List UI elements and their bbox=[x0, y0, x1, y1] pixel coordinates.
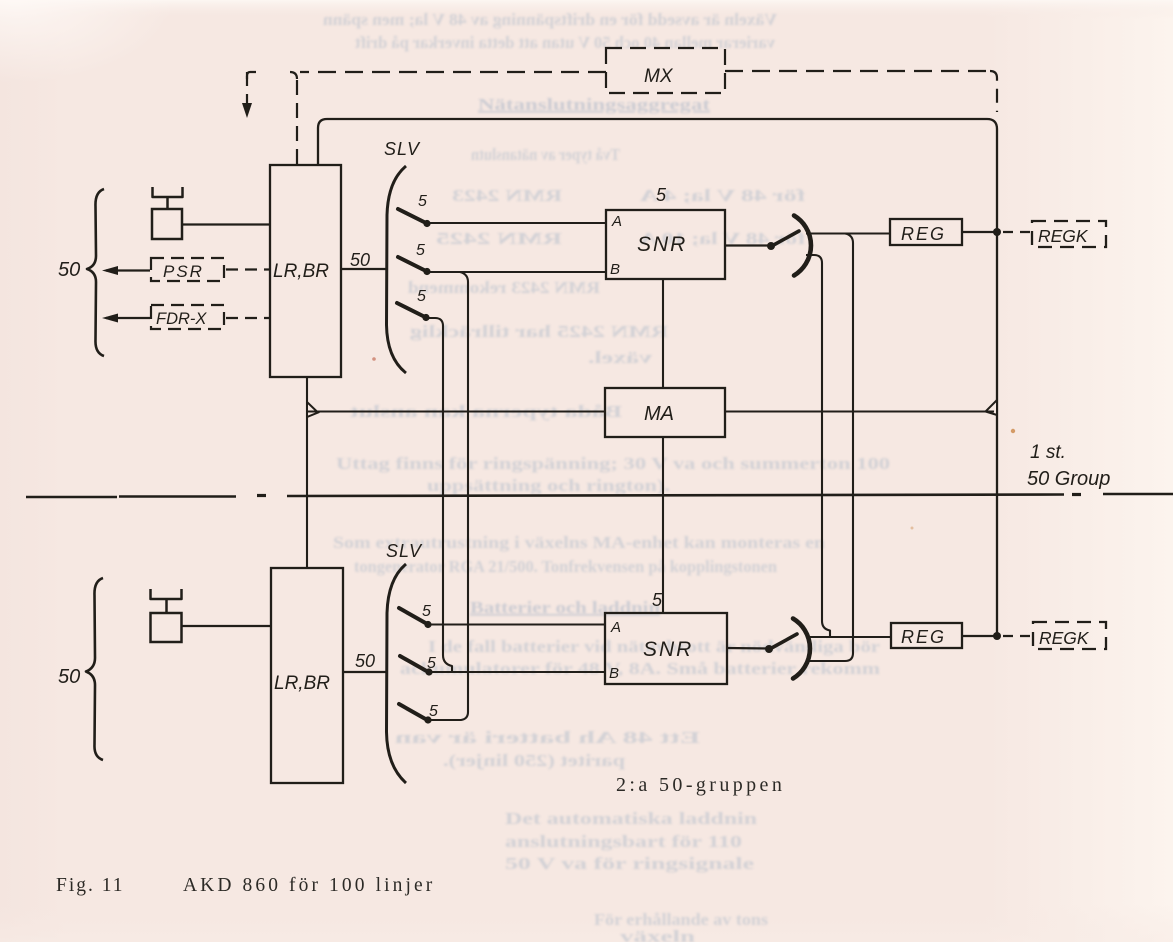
wire dashed PSR to LR,BR bbox=[226, 268, 270, 270]
wire arc top contact to REG upper bbox=[806, 232, 890, 234]
wire dashed bus to REGK lower bbox=[1003, 635, 1031, 637]
svg-text:5: 5 bbox=[416, 242, 425, 259]
wire arc top contact to REG lower bbox=[806, 636, 891, 638]
wire SNR upper output bbox=[725, 244, 772, 246]
svg-text:1 st.: 1 st. bbox=[1030, 442, 1066, 463]
svg-text:SLV: SLV bbox=[386, 541, 423, 561]
svg-text:paritet (250 linjer).: paritet (250 linjer). bbox=[443, 751, 625, 770]
wire tap down from REG line bbox=[807, 234, 853, 662]
box MA bbox=[605, 388, 725, 437]
svg-text:Växeln är avsedd för en drifts: Växeln är avsedd för en driftspänning av… bbox=[323, 10, 777, 29]
svg-text:50 Group: 50 Group bbox=[1027, 468, 1110, 490]
wire SNR lower output bbox=[727, 647, 770, 650]
wire dashed drop to LR,BR bbox=[296, 80, 298, 165]
wire dashed left drop with arrow bbox=[246, 72, 248, 104]
svg-text:RMN 2423 rekommend: RMN 2423 rekommend bbox=[408, 278, 600, 297]
svg-text:REGK: REGK bbox=[1038, 226, 1089, 246]
selector arc lower bbox=[793, 619, 810, 679]
bleed-through mirrored text from reverse side bbox=[323, 10, 890, 942]
brace switches lower bbox=[387, 564, 407, 783]
svg-text:RMN 2425 har tillräcklig: RMN 2425 har tillräcklig bbox=[409, 322, 668, 341]
svg-text:REG: REG bbox=[901, 627, 946, 647]
brace 50 upper-left bbox=[87, 189, 104, 356]
svg-text:MX: MX bbox=[644, 66, 674, 87]
svg-text:5: 5 bbox=[422, 603, 431, 620]
wire telephone to LR,BR lower bbox=[181, 625, 271, 627]
svg-text:RMN 2423: RMN 2423 bbox=[452, 186, 562, 205]
wire S2 to SNR B lower bbox=[429, 671, 605, 673]
svg-text:uppsättning och rington).: uppsättning och rington). bbox=[427, 476, 670, 495]
wire S3 to crossover down bbox=[426, 318, 452, 672]
box SNR upper bbox=[606, 210, 725, 279]
brace switches upper bbox=[387, 166, 407, 373]
box REGK upper (dashed) bbox=[1032, 221, 1106, 247]
telephone symbol lower bbox=[151, 589, 182, 599]
wire S1 to SNR A bbox=[427, 222, 606, 224]
svg-text:växel.: växel. bbox=[588, 348, 652, 367]
svg-text:SNR: SNR bbox=[643, 638, 693, 661]
svg-text:50: 50 bbox=[58, 259, 80, 281]
arrow PSR out bbox=[106, 269, 150, 271]
svg-text:REG: REG bbox=[901, 224, 946, 244]
junction dot lower REGK bbox=[993, 632, 1001, 640]
svg-text:RMN 2425: RMN 2425 bbox=[436, 229, 562, 248]
svg-text:50: 50 bbox=[350, 250, 370, 270]
wire SNR to MA bbox=[662, 279, 664, 388]
svg-text:LR,BR: LR,BR bbox=[274, 673, 330, 694]
svg-text:Ett 48 Ah batteri är van: Ett 48 Ah batteri är van bbox=[395, 728, 700, 747]
svg-text:LR,BR: LR,BR bbox=[273, 261, 329, 282]
paper specks bbox=[1011, 429, 1015, 433]
selector contact upper bbox=[767, 242, 775, 250]
box LR,BR upper bbox=[270, 165, 341, 377]
svg-text:FDR-X: FDR-X bbox=[156, 310, 207, 328]
box REG upper bbox=[890, 219, 962, 245]
wire REG to bus upper bbox=[962, 231, 994, 233]
svg-text:Uttag finns för ringspänning;: Uttag finns för ringspänning; 30 V va oc… bbox=[336, 454, 890, 473]
svg-text:AKD 860 för 100 linjer: AKD 860 för 100 linjer bbox=[183, 875, 435, 896]
wire crossover from upper B down to lower SW3 bbox=[429, 272, 468, 720]
svg-text:50 V va för ringsignale: 50 V va för ringsignale bbox=[505, 854, 754, 873]
svg-text:5: 5 bbox=[652, 590, 663, 610]
arrow FDR-X out bbox=[106, 317, 150, 319]
switch S1 lower bbox=[399, 608, 429, 625]
box LR,BR lower bbox=[271, 568, 343, 783]
svg-text:SLV: SLV bbox=[384, 139, 421, 159]
wire dashed FDR-X to LR,BR bbox=[226, 317, 270, 319]
svg-text:B: B bbox=[610, 261, 620, 278]
svg-text:varierar mellan 40 och 50 V ut: varierar mellan 40 och 50 V utan att det… bbox=[354, 33, 775, 52]
wire arc lower contact down to lower REG line bbox=[806, 255, 830, 637]
wire dashed bus to REGK upper bbox=[1003, 231, 1031, 233]
svg-text:PSR: PSR bbox=[163, 262, 204, 281]
wire LR,BR to switch brace upper bbox=[341, 268, 388, 270]
box REG lower bbox=[891, 623, 962, 648]
svg-text:SNR: SNR bbox=[637, 233, 687, 256]
svg-text:Två typer av nätanslutn: Två typer av nätanslutn bbox=[471, 145, 620, 164]
svg-text:anslutningsbart för 110: anslutningsbart för 110 bbox=[505, 832, 742, 851]
wire dashed MX right run bbox=[725, 70, 990, 72]
wire main top horizontal bbox=[318, 119, 997, 165]
junction dot upper REGK bbox=[993, 228, 1001, 236]
svg-text:A: A bbox=[610, 619, 621, 636]
svg-text:växeln: växeln bbox=[620, 927, 695, 942]
switch S3 upper bbox=[397, 303, 427, 318]
wire corner to MA left bbox=[307, 410, 605, 412]
telephone symbol upper bbox=[153, 187, 183, 197]
box MX (dashed) bbox=[606, 48, 725, 93]
selector arc upper bbox=[794, 216, 811, 276]
switch S2 upper bbox=[398, 257, 428, 272]
wire telephone to LR,BR upper bbox=[182, 223, 270, 225]
wire dashed corner down to main vertical bbox=[990, 71, 997, 112]
svg-text:Nätanslutningsaggregat: Nätanslutningsaggregat bbox=[478, 95, 711, 114]
svg-text:2:a 50-gruppen: 2:a 50-gruppen bbox=[616, 774, 785, 796]
switch S1 upper bbox=[398, 209, 428, 224]
svg-text:50: 50 bbox=[355, 651, 375, 671]
svg-text:5: 5 bbox=[417, 288, 426, 305]
brace 50 lower-left bbox=[86, 578, 103, 760]
svg-text:B: B bbox=[609, 665, 619, 682]
wire MA right to bus bbox=[725, 410, 994, 412]
svg-text:MA: MA bbox=[644, 403, 674, 425]
svg-text:REGK: REGK bbox=[1039, 628, 1090, 648]
wire MA down to lower SNR bbox=[662, 437, 664, 613]
junction beak at MA line bbox=[986, 400, 998, 415]
switch S2 lower bbox=[400, 656, 430, 673]
wire S2 to SNR B bbox=[427, 271, 606, 273]
box REGK lower (dashed) bbox=[1033, 622, 1106, 649]
wire LR,BR to switch brace lower bbox=[343, 671, 388, 673]
svg-text:Fig. 11: Fig. 11 bbox=[56, 875, 125, 896]
svg-text:Batterier och laddnin: Batterier och laddnin bbox=[470, 598, 660, 617]
wire dashed MX left run bbox=[300, 71, 606, 73]
svg-text:5: 5 bbox=[656, 185, 667, 205]
junction beak LR,BR corner bbox=[307, 402, 318, 417]
svg-text:5: 5 bbox=[427, 655, 436, 672]
switch S3 lower bbox=[399, 704, 429, 721]
svg-text:Det automatiska laddnin: Det automatiska laddnin bbox=[505, 809, 757, 828]
svg-text:50: 50 bbox=[58, 666, 80, 688]
wire REG to bus lower bbox=[962, 635, 994, 637]
box SNR lower bbox=[605, 613, 727, 684]
wire S1 to SNR A lower bbox=[428, 623, 605, 625]
svg-text:5: 5 bbox=[429, 703, 438, 720]
box PSR (dashed) upper bbox=[151, 258, 224, 281]
divider chain line bbox=[26, 496, 117, 499]
wire LR,BR bottom drop bbox=[306, 377, 308, 568]
svg-text:A: A bbox=[611, 213, 622, 230]
selector contact lower bbox=[765, 645, 773, 653]
box FDR-X (dashed) upper bbox=[151, 305, 224, 329]
svg-text:5: 5 bbox=[418, 193, 427, 210]
wire right vertical bus bbox=[996, 129, 998, 636]
